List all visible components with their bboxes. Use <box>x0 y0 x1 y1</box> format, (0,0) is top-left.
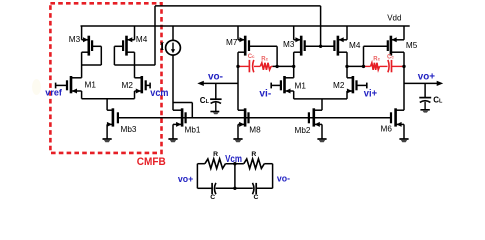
svg-text:R: R <box>251 151 256 158</box>
svg-text:vo+: vo+ <box>418 72 435 83</box>
svg-text:M2: M2 <box>333 81 345 90</box>
svg-text:vo+: vo+ <box>178 174 194 185</box>
svg-text:M1: M1 <box>295 81 307 90</box>
svg-text:M8: M8 <box>249 126 261 135</box>
svg-text:M6: M6 <box>381 124 393 133</box>
svg-text:R: R <box>213 151 218 158</box>
svg-text:M4: M4 <box>349 41 361 50</box>
svg-text:CMFB: CMFB <box>137 156 166 168</box>
svg-text:I: I <box>160 39 165 53</box>
svg-text:vo-: vo- <box>277 174 290 185</box>
svg-text:M3: M3 <box>69 35 81 44</box>
svg-text:vcm: vcm <box>150 88 168 99</box>
svg-text:Vcm: Vcm <box>225 154 242 165</box>
svg-text:M3: M3 <box>283 40 295 49</box>
svg-text:C: C <box>254 194 259 201</box>
svg-text:Mb2: Mb2 <box>295 126 311 135</box>
svg-text:Vdd: Vdd <box>387 13 401 22</box>
svg-text:M4: M4 <box>136 35 148 44</box>
svg-text:vi-: vi- <box>259 88 271 99</box>
svg-text:M5: M5 <box>406 41 418 50</box>
svg-text:C: C <box>210 194 215 201</box>
svg-text:vi+: vi+ <box>364 88 377 99</box>
svg-text:M7: M7 <box>226 38 238 47</box>
svg-text:Mb1: Mb1 <box>185 125 201 134</box>
svg-text:M1: M1 <box>85 81 97 90</box>
svg-text:vref: vref <box>45 88 62 99</box>
svg-text:Mb3: Mb3 <box>121 125 137 134</box>
svg-text:vo-: vo- <box>208 72 223 83</box>
svg-text:M2: M2 <box>122 81 134 90</box>
